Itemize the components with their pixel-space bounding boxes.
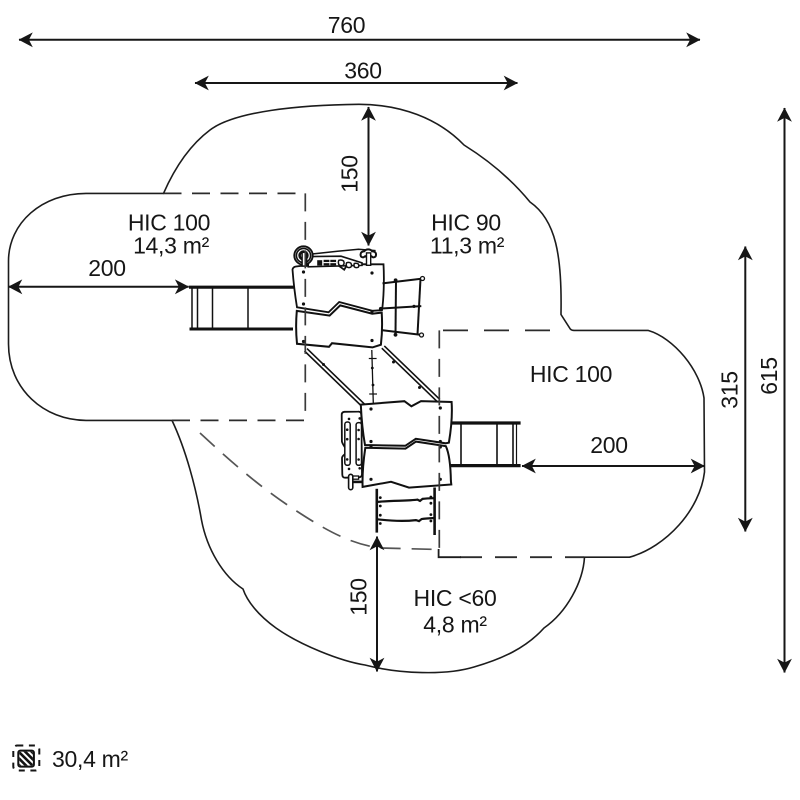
dimension 315 (744, 247, 746, 532)
dashed HIC<60 arc (200, 433, 439, 550)
dimension 150 top (368, 107, 370, 246)
tower T2 lower panel (363, 442, 452, 488)
east ladder rails (451, 421, 521, 424)
dashed centerline through T2 (438, 330, 440, 549)
svg-text:4,8 m²: 4,8 m² (423, 612, 487, 638)
dimension 360 (195, 82, 518, 84)
right inclined ladder of T1 (382, 279, 423, 335)
activity panel back rail on T1 (309, 249, 376, 254)
mushroom knob handle on T1 (361, 249, 376, 257)
svg-text:360: 360 (344, 58, 381, 84)
dimension 760 (19, 39, 700, 41)
bridge left rail (305, 351, 364, 408)
bridge centerline (372, 350, 374, 404)
dashed HIC100-left rect top edge (164, 192, 306, 194)
steering wheel 2 (side view) (353, 481, 363, 484)
solid corner of HIC100-right rect bottom-left (439, 549, 461, 557)
tower T2 upper panel (361, 401, 452, 446)
dashed HIC100-left rect bottom edge (172, 419, 305, 421)
legend dashed square (13, 746, 39, 771)
svg-text:11,3 m²: 11,3 m² (430, 233, 505, 259)
slide wavy bar 2 (378, 518, 435, 521)
dimension 200 right (522, 465, 705, 467)
svg-text:200: 200 (88, 255, 125, 281)
dimension 150 bottom (376, 537, 378, 672)
svg-text:150: 150 (337, 155, 363, 192)
svg-text:150: 150 (346, 578, 372, 615)
slide wavy bar 1 (378, 498, 435, 502)
svg-text:14,3 m²: 14,3 m² (133, 233, 210, 259)
dashed HIC100-right rect top edge (443, 329, 552, 331)
svg-text:615: 615 (756, 357, 782, 394)
dimension 615 (784, 108, 786, 673)
svg-text:200: 200 (590, 432, 627, 458)
STRUCTURE (189, 287, 521, 535)
safety zone outline (cloud) (9, 104, 705, 672)
svg-text:760: 760 (328, 12, 365, 38)
bridge right rail (382, 348, 438, 402)
tower T1 upper panel (293, 262, 384, 312)
side panel assembly left of tower2 (342, 412, 362, 478)
dimension 200 left (9, 286, 189, 288)
slide rails below tower2 (375, 489, 378, 533)
svg-text:HIC 100: HIC 100 (530, 361, 612, 387)
activity panel strip on T1 (308, 256, 362, 267)
tower T1 lower panel (296, 305, 382, 347)
east ladder rungs (460, 425, 462, 465)
screw dots (302, 270, 442, 524)
legend hatched square (10, 730, 46, 792)
steering wheel 1 on T1 (294, 246, 312, 264)
left ladder rungs (191, 289, 193, 328)
svg-text:30,4 m²: 30,4 m² (52, 746, 129, 772)
dashed centerline through T1 (304, 193, 306, 420)
svg-text:315: 315 (717, 371, 743, 408)
dashed part of HIC100-right rect bottom edge (460, 556, 584, 558)
svg-text:HIC <60: HIC <60 (414, 585, 497, 611)
left ladder rails (189, 286, 294, 289)
